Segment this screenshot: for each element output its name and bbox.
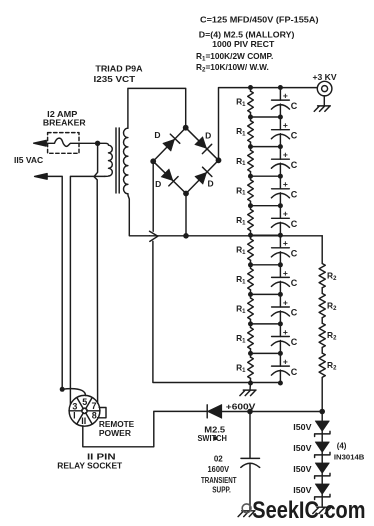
svg-text:D: D [155, 179, 161, 189]
relay socket radial dividers [87, 410, 100, 412]
wire: ladder link at junction 8 [251, 323, 281, 325]
node: lower VAC corner dot [60, 387, 65, 392]
svg-text:TRIAD P9A: TRIAD P9A [95, 63, 142, 73]
svg-text:BREAKER: BREAKER [43, 117, 86, 127]
wire: bridge edge left-top [153, 128, 186, 162]
wire: bridge edge top-right [186, 128, 219, 161]
wire: socket pin 11 loop to M2.5 switch [83, 411, 207, 446]
svg-text:I50V: I50V [293, 486, 312, 495]
wire: M2.5 to +600V node [222, 411, 322, 413]
node dots at junction 3 [248, 174, 253, 179]
svg-text:RELAY SOCKET: RELAY SOCKET [57, 461, 122, 471]
wire: ladder link at junction 9 [251, 352, 281, 354]
ground at +3KV terminal [323, 96, 325, 106]
wire: R2 chain bottom to +600V line [321, 378, 323, 412]
svg-text:C: C [291, 130, 298, 140]
115 VAC upper arrow [34, 140, 47, 146]
breaker CB1 element [46, 138, 98, 146]
svg-text:IN3014B: IN3014B [334, 454, 365, 461]
svg-text:I: I [73, 411, 76, 421]
wire: ladder link at junction 2 [251, 146, 281, 148]
svg-text:C: C [291, 190, 298, 200]
svg-text:C: C [291, 367, 298, 377]
wire: secondary top lead to bridge top [128, 88, 186, 128]
svg-text:1000 PIV RECT: 1000 PIV RECT [212, 39, 274, 49]
resistor R2 #3 [319, 323, 325, 347]
svg-text:C: C [291, 219, 298, 229]
wire: zener chain to ground [321, 505, 323, 507]
wire: lower VAC to down corner [46, 176, 62, 389]
wire: ladder link at junction 1 [251, 116, 281, 118]
svg-text:I50V: I50V [293, 444, 312, 453]
svg-text:5: 5 [82, 397, 87, 407]
diode D upper-left [163, 139, 175, 151]
svg-text:C=125 MFD/450V (FP-155A): C=125 MFD/450V (FP-155A) [200, 15, 319, 25]
svg-text:C: C [291, 337, 298, 347]
svg-text:D: D [208, 179, 214, 189]
svg-text:C: C [291, 249, 298, 259]
svg-text:+: + [283, 297, 288, 307]
zener diode 150V #4 [315, 484, 329, 495]
node dots at junction 9 [248, 351, 253, 356]
resistor R1 #10 [250, 353, 252, 357]
wire: ladder link at junction 5 [251, 234, 281, 236]
resistor R1 #6 [250, 235, 252, 239]
wire: bridge right up to +HV rail [219, 88, 318, 161]
diode D upper-right [195, 137, 207, 149]
capacitor C #3 [279, 147, 281, 160]
wire: DC- from bridge left down (hop over AC rail) to bottom rail [152, 161, 154, 231]
svg-text:R1=100K/2W COMP.: R1=100K/2W COMP. [196, 51, 273, 63]
wire: bridge edge left-bottom [153, 161, 186, 193]
svg-text:II: II [81, 416, 86, 426]
resistor R1 #2 [250, 117, 252, 121]
node dots at ladder bottom junction [248, 381, 253, 386]
ground at transient suppressor [238, 511, 255, 517]
wire: primary bottom lead to left, down to socket pin3 [70, 176, 104, 404]
ink speck on SWITCH label [213, 436, 217, 440]
capacitor C #10 [279, 353, 281, 366]
node dots at junction 4 [248, 203, 253, 208]
svg-text:+: + [283, 91, 288, 101]
svg-text:+: + [283, 120, 288, 130]
relay socket circle [69, 395, 100, 426]
node dots at junction 6 [248, 262, 253, 267]
resistor R1 #1 [250, 88, 252, 92]
resistor R2 #4 [319, 353, 325, 377]
resistor R1 #7 [250, 265, 252, 269]
capacitor C #6 [279, 235, 281, 248]
transformer primary winding [98, 143, 113, 176]
svg-text:SUPP.: SUPP. [212, 485, 231, 494]
jumper bracket pins 7-8 [98, 408, 106, 418]
capacitor C #1 [279, 88, 281, 101]
wire: ladder link at junction 7 [251, 293, 281, 295]
crossover hop arrowhead on AC rail at DC- wire [150, 231, 158, 241]
svg-text:POWER: POWER [99, 429, 131, 438]
115 VAC lower arrow [35, 174, 48, 180]
resistor R1 #5 [250, 206, 252, 210]
svg-text:02: 02 [214, 455, 223, 464]
node dots at junction 2 [248, 144, 253, 149]
diode D lower-left [161, 169, 173, 181]
zener diode 150V #3 [315, 463, 329, 474]
ground at ladder bottom [249, 383, 252, 391]
svg-text:SWITCH: SWITCH [197, 434, 227, 443]
node: bridge top [183, 125, 189, 131]
resistor R1 #9 [250, 324, 252, 328]
transformer core [116, 128, 119, 193]
node: +600V transient junction [247, 409, 253, 415]
watermark SeekIC.com [242, 497, 365, 524]
resistor R1 #4 [250, 176, 252, 180]
svg-text:+: + [283, 179, 288, 189]
wire: junction down to socket pin7 (with hop over primary lead) [94, 143, 98, 403]
svg-text:+: + [283, 268, 288, 278]
svg-text:I50V: I50V [293, 465, 312, 474]
svg-text:I50V: I50V [293, 423, 312, 432]
svg-text:+: + [283, 209, 288, 219]
wire: ladder link at junction 3 [251, 175, 281, 177]
capacitor C #8 [279, 294, 281, 307]
svg-text:+: + [283, 150, 288, 160]
svg-text:+: + [283, 238, 288, 248]
svg-text:8: 8 [92, 411, 97, 421]
svg-text:II5 VAC: II5 VAC [14, 155, 43, 165]
svg-text:SeekIC.com: SeekIC.com [252, 497, 365, 524]
svg-text:D: D [205, 131, 211, 141]
capacitor C #4 [279, 176, 281, 189]
capacitor C #7 [279, 265, 281, 278]
node dots at junction 7 [248, 292, 253, 297]
node dots at junction 5 [248, 233, 253, 238]
svg-text:(4): (4) [337, 442, 347, 451]
resistor R1 #3 [250, 147, 252, 151]
capacitor C #5 [279, 206, 281, 219]
node: bridge left [150, 158, 156, 164]
svg-text:R2=10K/10W/ W.W.: R2=10K/10W/ W.W. [196, 62, 269, 74]
svg-text:D=(4) M2.5 (MALLORY): D=(4) M2.5 (MALLORY) [199, 29, 295, 39]
wire: AC rail from secondary to ladder and R2 chain [150, 235, 323, 237]
node: +600V zener junction [319, 409, 325, 415]
wire: R2 chain top [321, 236, 323, 264]
node: breaker-primary junction [95, 141, 100, 146]
diode D lower-right [195, 172, 207, 184]
wire: bridge bottom down to AC rail [185, 194, 187, 236]
node: bridge bottom [183, 191, 189, 197]
svg-text:+: + [283, 356, 288, 366]
svg-text:REMOTE: REMOTE [99, 420, 135, 429]
capacitor transient suppressor [249, 412, 251, 459]
svg-text:7: 7 [91, 401, 96, 411]
node dots at junction 0 [248, 85, 253, 90]
node: bridge right [216, 157, 222, 163]
wire: secondary bottom lead to AC rail [128, 194, 150, 236]
svg-text:TRANSIENT: TRANSIENT [201, 476, 237, 485]
wire: to socket pin 5 [62, 389, 85, 396]
resistor R1 #8 [250, 294, 252, 298]
node dots at junction 8 [248, 321, 253, 326]
svg-text:C: C [291, 101, 298, 111]
svg-text:C: C [291, 160, 298, 170]
svg-text:C: C [291, 278, 298, 288]
wire: ladder link at junction 6 [251, 264, 281, 266]
diode M2.5 switch [206, 405, 208, 418]
wire: +600V node to first zener [321, 412, 323, 421]
svg-text:1600V: 1600V [208, 465, 230, 474]
capacitor C #9 [279, 324, 281, 337]
terminal +3KV circle [317, 81, 332, 96]
svg-text:C: C [291, 308, 298, 318]
node: bridge bottom / AC rail junction [183, 233, 189, 239]
wire: bridge edge bottom-right [186, 160, 219, 193]
breaker CB1 dashed box [48, 133, 79, 154]
resistor R2 #1 [319, 264, 325, 288]
zener diode 150V #2 [315, 442, 329, 453]
svg-text:I235 VCT: I235 VCT [94, 74, 136, 84]
svg-text:+3 KV: +3 KV [313, 72, 338, 82]
ground at zener chain [313, 507, 332, 513]
capacitor C #2 [279, 117, 281, 130]
resistor R2 #2 [319, 293, 325, 317]
svg-text:D: D [154, 130, 160, 140]
node dots at junction 1 [248, 115, 253, 120]
wire: ladder link at junction 4 [251, 205, 281, 207]
zener diode 150V #1 [315, 421, 329, 432]
svg-text:+: + [283, 327, 288, 337]
transformer secondary winding [124, 128, 128, 194]
relay socket hub [82, 408, 87, 413]
